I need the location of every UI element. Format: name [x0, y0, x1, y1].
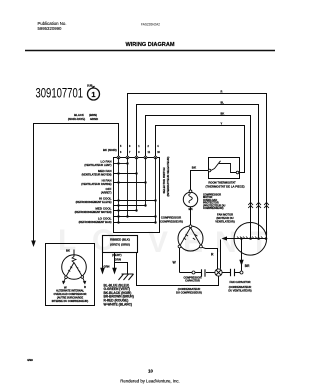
wire loop 3 to fan motor	[146, 116, 251, 239]
svg-text:CAPACITOR: CAPACITOR	[185, 279, 200, 282]
alternate compressor box	[46, 244, 95, 306]
svg-text:(COMPRESSEUR): (COMPRESSEUR)	[159, 219, 183, 223]
compressor terminals	[178, 225, 202, 248]
fan motor winding line	[234, 238, 267, 240]
fan capacitor terminal	[240, 271, 243, 274]
thermostat internal switch	[211, 161, 236, 173]
wire: fan BR lead down	[241, 239, 243, 271]
chassis ground symbol	[119, 274, 134, 280]
wire loop 1 (outer) to fan motor	[128, 94, 267, 239]
alternate leads with arrows	[64, 279, 66, 282]
wire: neutral from junction to cord	[137, 253, 219, 286]
fan capacitor leads	[222, 272, 230, 274]
alternate compressor caption	[52, 289, 89, 303]
svg-text:(NOIR-RAYE): (NOIR-RAYE)	[68, 117, 85, 121]
svg-text:(VENTILATEUR MOYEN): (VENTILATEUR MOYEN)	[82, 173, 112, 177]
svg-text:R: R	[84, 285, 86, 289]
wire loop 4 to thermostat	[156, 126, 245, 173]
compressor capacitor plates	[202, 269, 206, 276]
svg-text:10: 10	[148, 369, 153, 374]
svg-text:1: 1	[91, 90, 95, 99]
svg-text:MED FAN: MED FAN	[98, 169, 112, 173]
svg-text:(GREY) (GRIS): (GREY) (GRIS)	[110, 243, 130, 247]
alternate windings	[66, 263, 82, 277]
label BK (NOIR) on supply wire	[68, 113, 98, 121]
svg-text:Y: Y	[221, 121, 223, 125]
fan motor circle	[234, 223, 267, 256]
svg-text:T: T	[250, 226, 274, 259]
green ground wires	[103, 253, 128, 275]
wire: overload to compressor	[190, 207, 192, 225]
svg-text:(CONDENSATEUR: (CONDENSATEUR	[178, 287, 201, 291]
svg-text:HI COOL: HI COOL	[99, 196, 112, 200]
svg-text:E: E	[183, 226, 209, 259]
selector switch S1 box	[114, 158, 160, 233]
svg-text:(VERT): (VERT)	[112, 253, 122, 257]
ground wire arrows	[100, 268, 105, 275]
compressor windings	[180, 228, 201, 246]
svg-text:BR: BR	[245, 264, 250, 268]
selector switch terminals	[117, 156, 157, 159]
revision bubble 1	[88, 86, 100, 100]
svg-text:309107701: 309107701	[36, 86, 84, 101]
svg-text:(REFROIDISSEMENT BAS): (REFROIDISSEMENT BAS)	[79, 220, 112, 224]
wire color labels on loops	[221, 89, 225, 125]
svg-text:BL: BL	[221, 100, 225, 104]
svg-text:(CONDENSATEUR: (CONDENSATEUR	[229, 285, 252, 289]
svg-text:5995320990: 5995320990	[38, 26, 63, 31]
svg-text:COMPRESSEUR): COMPRESSEUR)	[203, 207, 224, 210]
terminal on capacitor run	[192, 271, 195, 274]
svg-text:L: L	[58, 224, 82, 257]
fan motor label	[215, 213, 235, 224]
svg-text:V: V	[148, 226, 174, 259]
svg-text:(THERMOSTAT DE LA PIECE): (THERMOSTAT DE LA PIECE)	[205, 185, 244, 189]
svg-text:(REFROIDISSEMENT ELEVE): (REFROIDISSEMENT ELEVE)	[76, 200, 112, 204]
svg-text:DU VENTILATEUR): DU VENTILATEUR)	[228, 288, 251, 292]
svg-text:GRN: GRN	[104, 265, 110, 269]
svg-text:WIRING DIAGRAM: WIRING DIAGRAM	[125, 42, 174, 48]
thermostat terminals	[208, 169, 239, 174]
overload internal element	[189, 194, 193, 203]
svg-text:RIBBED (BLK): RIBBED (BLK)	[110, 238, 130, 242]
connector chevrons on fan wires	[248, 202, 269, 208]
svg-text:BK: BK	[66, 249, 70, 253]
svg-text:MED COOL: MED COOL	[95, 207, 111, 211]
fan motor junction dots	[240, 237, 267, 240]
svg-text:(MOTEUR DU: (MOTEUR DU	[216, 216, 233, 220]
svg-text:R: R	[221, 89, 223, 93]
fan motor left lead with arrow	[224, 238, 234, 240]
svg-text:HI FAN: HI FAN	[102, 178, 112, 182]
svg-text:FAN CAPACITOR: FAN CAPACITOR	[229, 280, 250, 284]
overload top terminal	[189, 190, 192, 193]
svg-text:N: N	[215, 226, 243, 259]
svg-text:(VENTILATEUR RAPIDE): (VENTILATEUR RAPIDE)	[81, 182, 111, 186]
svg-text:BK (NOIR): BK (NOIR)	[103, 148, 117, 152]
wire: fan motor left lead down to junction	[220, 240, 222, 269]
svg-text:VENTILATEUR): VENTILATEUR)	[215, 220, 235, 224]
wire loop 2 to fan motor	[137, 105, 259, 239]
svg-text:SELECTOR SWITCH: SELECTOR SWITCH	[162, 168, 166, 194]
svg-text:BK: BK	[221, 111, 225, 115]
selector switch terminal numbers	[120, 145, 161, 154]
svg-text:(REFROIDISSEMENT MOYEN): (REFROIDISSEMENT MOYEN)	[75, 210, 112, 214]
svg-text:SUB.: SUB.	[87, 84, 93, 88]
svg-text:GRN: GRN	[115, 257, 121, 261]
wire: black supply left vertical	[34, 124, 119, 242]
svg-text:DU COMPRESSEUR): DU COMPRESSEUR)	[176, 290, 202, 294]
svg-text:LO FAN: LO FAN	[101, 159, 112, 163]
alternate compressor circle	[62, 255, 87, 280]
arrow: plug end of black wire	[31, 241, 36, 248]
selector switch junction dots	[117, 162, 156, 223]
header rule	[25, 50, 275, 52]
fan winding ticks	[237, 237, 263, 239]
wire: compressor R lead to junction	[202, 247, 217, 269]
svg-text:OFF: OFF	[106, 187, 112, 191]
switch position labels	[75, 159, 112, 224]
wire color legend	[104, 283, 134, 306]
header publication number	[38, 21, 67, 31]
watermark	[58, 224, 274, 259]
wire: thermostat to overload (BK)	[191, 171, 209, 192]
alternate compressor top lead	[73, 250, 75, 257]
selector switch matrix wires	[114, 157, 156, 223]
junction connector (circle-X)	[215, 269, 222, 276]
wire: capacitor run	[180, 272, 202, 274]
svg-text:(ARRET): (ARRET)	[101, 191, 112, 195]
svg-text:(INTERRUPTEUR SELECTEUR): (INTERRUPTEUR SELECTEUR)	[166, 157, 170, 197]
overload protector circle	[183, 192, 197, 206]
svg-text:(VENTILATEUR LENT): (VENTILATEUR LENT)	[84, 163, 111, 167]
svg-text:FAN MOTOR: FAN MOTOR	[217, 213, 233, 217]
internal overload zigzag	[72, 257, 76, 263]
overload protector label	[203, 194, 226, 211]
svg-text:LO COOL: LO COOL	[98, 217, 112, 221]
fan capacitor plates	[231, 269, 235, 276]
service cord label box	[103, 236, 138, 253]
wire: compressor W lead down	[179, 248, 181, 273]
fan capacitor label	[228, 280, 251, 292]
svg-text:FAS226H2A2: FAS226H2A2	[141, 22, 160, 27]
arrow on BR lead	[239, 260, 243, 266]
svg-text:4/99: 4/99	[27, 358, 33, 362]
svg-text:W-WHITE (BLANC): W-WHITE (BLANC)	[104, 302, 132, 306]
thermostat box	[209, 158, 240, 179]
svg-text:INTERNE DU COMPRESSEUR): INTERNE DU COMPRESSEUR)	[52, 300, 89, 303]
svg-text:GRND: GRND	[90, 117, 98, 121]
alternate terminals	[65, 276, 68, 279]
compressor motor circle	[178, 226, 203, 251]
svg-text:Rendered by LeadVenture, Inc.: Rendered by LeadVenture, Inc.	[120, 379, 179, 384]
